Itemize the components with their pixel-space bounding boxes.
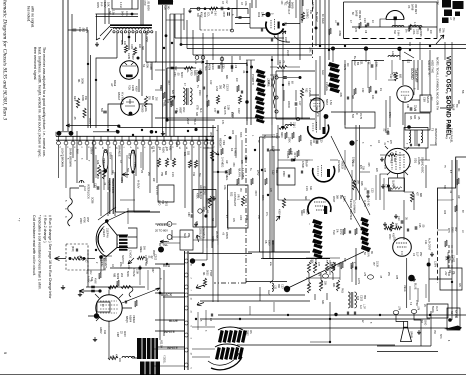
svg-text:CONTRAST: CONTRAST — [233, 192, 237, 207]
junction dot q — [427, 263, 431, 267]
svg-text:47K: 47K — [221, 120, 224, 125]
svg-text:820: 820 — [171, 90, 174, 95]
svg-text:C13: C13 — [363, 18, 366, 23]
svg-text:160: 160 — [138, 44, 141, 49]
svg-text:T3: T3 — [431, 128, 435, 132]
tube V8b horseshoe video amp — [313, 166, 335, 182]
svg-text:470K: 470K — [83, 217, 86, 223]
svg-text:L29N: L29N — [434, 261, 438, 267]
tube V4 inner dashes — [271, 19, 275, 30]
svg-text:ON?: ON? — [86, 217, 89, 223]
svg-text:BLK: BLK — [76, 149, 80, 154]
capacitor C80 — [191, 214, 193, 218]
box interstage T3 — [404, 128, 428, 149]
svg-text:702: 702 — [161, 200, 164, 205]
svg-text:OHM: OHM — [415, 300, 417, 305]
wires dropping from connector — [58, 145, 60, 178]
svg-text:3: 3 — [190, 338, 192, 340]
svg-text:1550: 1550 — [282, 171, 285, 177]
svg-text:DC: DC — [426, 28, 428, 32]
sync top wire with components — [190, 8, 237, 10]
svg-text:33K: 33K — [321, 300, 324, 305]
svg-text:C77: C77 — [213, 108, 216, 113]
svg-text:866: 866 — [164, 171, 167, 176]
svg-text:5: 5 — [64, 200, 67, 202]
tube V2 1B3GT HV rect — [121, 97, 140, 116]
svg-text:.01: .01 — [148, 255, 151, 259]
svg-text:.02 C5: .02 C5 — [293, 152, 296, 160]
transformer T2 audio output vertical — [348, 292, 350, 308]
wire right column verticals — [316, 56, 457, 255]
svg-text:C90: C90 — [289, 122, 291, 127]
resistor bottom audio — [108, 356, 118, 359]
terminal oval L7N c — [393, 311, 399, 315]
svg-text:ANCE: ANCE — [311, 2, 315, 9]
svg-text:B+ HGV: B+ HGV — [315, 12, 319, 22]
svg-text:The receiver was adjusted for: The receiver was adjusted for a good qua… — [42, 47, 46, 158]
svg-text:5: 5 — [59, 147, 61, 149]
dense cluster coil marks x330 — [328, 62, 340, 69]
svg-text:RB: RB — [264, 240, 267, 244]
svg-text:SERVICE: SERVICE — [202, 228, 205, 239]
svg-text:* †: * † — [17, 218, 21, 222]
svg-text:.002: .002 — [82, 27, 86, 33]
svg-text:3: 3 — [108, 147, 110, 149]
resistor strip r1 — [203, 278, 206, 287]
svg-text:680: 680 — [419, 193, 422, 198]
wires left of sync box — [163, 5, 175, 136]
H supply vertical wire — [134, 174, 160, 212]
svg-text:1500: 1500 — [268, 240, 271, 246]
svg-text:ORANGE: ORANGE — [118, 145, 122, 157]
svg-text:500: 500 — [100, 108, 103, 113]
vertical edge connector strip — [184, 251, 186, 370]
svg-text:0.0 NO: 0.0 NO — [367, 199, 369, 206]
svg-text:X1 FL: X1 FL — [152, 146, 155, 153]
svg-text:10: 10 — [461, 230, 463, 233]
svg-text:SALIB: SALIB — [426, 96, 429, 103]
svg-text:SUFFIX "A".: SUFFIX "A". — [427, 60, 431, 77]
ground top right — [430, 252, 434, 256]
vert wires tuner long drops — [101, 170, 115, 216]
svg-text:VR-1: VR-1 — [237, 194, 241, 200]
resistor network r5 — [331, 262, 334, 273]
resistor 3900 in box — [208, 196, 211, 208]
svg-text:100: 100 — [280, 1, 282, 6]
wires sif risers — [333, 50, 366, 112]
svg-text:330K: 330K — [239, 132, 241, 138]
CRT internal hatch arcs — [98, 226, 104, 252]
resistor near HV — [144, 96, 147, 107]
svg-text:RET: RET — [73, 96, 77, 102]
resistor 3.3MEG — [301, 12, 304, 21]
svg-text:C13-3: C13-3 — [226, 84, 229, 91]
svg-text:A4001: A4001 — [199, 192, 202, 200]
tube V4 envelope thick arc — [266, 22, 284, 35]
svg-text:LW: LW — [110, 83, 113, 87]
capacitor C16 bl — [91, 286, 95, 288]
resistor bottom tuner — [137, 256, 145, 259]
svg-text:2: 2 — [190, 278, 192, 280]
svg-text:105: 105 — [290, 151, 293, 156]
resistor contrast — [241, 196, 244, 206]
svg-text:C: C — [89, 280, 92, 282]
svg-text:C51: C51 — [159, 85, 162, 90]
svg-text:922: 922 — [230, 192, 234, 197]
wire pair top x141 — [140, 0, 142, 26]
svg-text:+B: +B — [222, 232, 225, 235]
yoke boxes right — [128, 228, 137, 248]
dense cluster width coil — [256, 69, 266, 75]
capacitor right of box — [239, 17, 242, 18]
svg-text:400V: 400V — [275, 133, 278, 139]
svg-text:4: 4 — [223, 135, 225, 137]
resistor PW2 600 — [388, 154, 397, 157]
arrow to panel corner — [436, 35, 444, 44]
svg-text:YEL: YEL — [163, 243, 169, 247]
capacitor C10 05 — [401, 220, 403, 224]
arrow up mid — [196, 235, 200, 242]
svg-text:L29C: L29C — [309, 47, 312, 53]
resistor mid — [216, 95, 219, 104]
coil L23A wire — [384, 60, 402, 62]
svg-text:7: 7 — [405, 143, 407, 145]
extra junction dots scatter — [163, 47, 165, 49]
svg-text:AUX: AUX — [120, 40, 123, 45]
svg-text:M5: M5 — [409, 116, 412, 120]
arrow 2 — [197, 302, 204, 306]
svg-text:H.V RECT: H.V RECT — [121, 92, 125, 105]
svg-text:300M: 300M — [116, 273, 119, 279]
junction dot left wires — [165, 34, 168, 37]
svg-text:K73UM: K73UM — [132, 268, 135, 276]
svg-text:RG: RG — [336, 284, 339, 288]
svg-text:3352: 3352 — [246, 330, 249, 336]
svg-text:† Run 2 change }: † Run 2 change } — [43, 215, 47, 243]
svg-text:DARK BROWN: DARK BROWN — [69, 148, 73, 167]
svg-text:22000: 22000 — [287, 101, 290, 108]
svg-text:1000: 1000 — [239, 215, 241, 221]
det wire with peaking coils — [352, 26, 437, 28]
svg-text:240: 240 — [167, 6, 169, 11]
svg-text:10 M: 10 M — [339, 229, 342, 234]
diagonal bottom left of H area — [98, 207, 116, 220]
svg-text:C103: C103 — [360, 295, 363, 302]
terminal circle 1 — [78, 256, 82, 260]
svg-text:.0056: .0056 — [338, 30, 341, 37]
tube V10 sound disc — [385, 148, 410, 173]
tube V5 vid det dome — [386, 11, 404, 20]
diagonal wire 2 — [342, 195, 362, 230]
ground under — [366, 194, 370, 198]
junction dot i — [198, 70, 202, 74]
svg-text:L2: L2 — [449, 17, 452, 20]
svg-text:R52: R52 — [305, 88, 308, 93]
junction dot center x230 — [229, 136, 232, 139]
svg-text:2: 2 — [95, 262, 97, 264]
box video detector panel edges — [343, 2, 345, 39]
svg-text:R75: R75 — [447, 228, 450, 233]
junction dot staircase — [180, 43, 183, 46]
svg-text:NOR: NOR — [203, 12, 205, 17]
svg-text:1: 1 — [251, 135, 253, 137]
junction dot above connector a — [117, 125, 120, 128]
svg-text:RD5: RD5 — [128, 85, 131, 90]
svg-text:C32: C32 — [78, 27, 82, 32]
svg-text:VS: VS — [407, 5, 410, 9]
svg-text:2W: 2W — [155, 97, 158, 101]
svg-text:47: 47 — [349, 20, 352, 23]
small box under X1 column — [158, 185, 174, 202]
junction dot left bus — [250, 66, 253, 69]
wire top audio — [110, 267, 160, 269]
svg-text:4: 4 — [447, 340, 449, 342]
svg-text:AGC: AGC — [321, 70, 324, 75]
tube V5 cathode tick — [394, 17, 397, 21]
svg-text:.05: .05 — [73, 116, 77, 120]
capacitor C15 .05 — [415, 226, 417, 230]
svg-text:VERT: VERT — [186, 118, 189, 125]
coil tail curve — [211, 357, 242, 370]
svg-text:SLC: SLC — [204, 66, 207, 71]
svg-text:680K: 680K — [261, 195, 263, 201]
svg-text:LIGHT BROWN: LIGHT BROWN — [61, 148, 65, 167]
svg-text:.0033: .0033 — [222, 11, 224, 17]
box horiz section — [276, 71, 315, 119]
svg-text:330: 330 — [195, 112, 198, 117]
svg-text:300: 300 — [413, 115, 416, 120]
junction dot n — [202, 263, 205, 266]
svg-text:.05: .05 — [417, 116, 420, 120]
svg-text:.01: .01 — [364, 187, 367, 191]
svg-text:1W: 1W — [235, 78, 238, 82]
extra caps scatter — [203, 87, 204, 90]
svg-text:PI?: PI? — [372, 262, 375, 266]
resistor under connector 2 — [102, 168, 105, 179]
svg-text:450V: 450V — [152, 250, 155, 256]
svg-text:OUT: OUT — [435, 306, 438, 312]
wires long bottom-right — [310, 302, 330, 342]
svg-text:3: 3 — [64, 216, 67, 218]
horizontal feeds top of verticals — [260, 137, 281, 150]
svg-text:1S: 1S — [379, 88, 382, 91]
resistor RET 100K 1W — [76, 98, 79, 108]
tube V1 5U4GB rectifier — [120, 61, 138, 79]
wire segments det box to sif — [352, 60, 412, 62]
svg-text:TIF: TIF — [455, 104, 458, 108]
junction dot sif box — [407, 125, 411, 129]
elbows turning right — [260, 252, 331, 259]
svg-text:25V: 25V — [222, 84, 225, 89]
wire horizontals right column — [309, 160, 452, 230]
svg-text:A26: A26 — [96, 160, 99, 165]
svg-text:VERT: VERT — [179, 107, 182, 114]
wire vertical x72 — [71, 14, 73, 131]
svg-text:ISO: ISO — [420, 319, 423, 323]
svg-text:C77: C77 — [383, 165, 385, 170]
dashed volume control column — [449, 245, 452, 268]
junction dot m — [190, 258, 195, 263]
junction dots dashed box — [69, 257, 72, 260]
svg-text:IF: IF — [355, 113, 358, 116]
svg-text:C5M: C5M — [423, 97, 426, 102]
svg-text:5000: 5000 — [206, 270, 209, 276]
svg-text:CLIPS: CLIPS — [363, 200, 365, 207]
svg-text:100-1: 100-1 — [293, 122, 295, 129]
panel border lines bottom middle — [248, 251, 310, 253]
junction dot g — [315, 27, 318, 30]
svg-text:533: 533 — [187, 151, 190, 156]
coil group 2 — [410, 26, 422, 28]
svg-text:05: 05 — [405, 217, 408, 220]
svg-text:4.7K: 4.7K — [325, 258, 327, 263]
junction dot e — [364, 46, 368, 50]
IS box bottom — [97, 302, 110, 312]
svg-text:600V: 600V — [180, 72, 183, 78]
wires top middle risers — [290, 0, 302, 23]
svg-text:SPKR: SPKR — [410, 331, 413, 338]
ground arrow trap — [276, 216, 280, 221]
svg-text:31K: 31K — [309, 186, 312, 191]
svg-text:14: 14 — [185, 147, 187, 150]
junction dot loop left — [104, 169, 107, 172]
svg-text:WOF: WOF — [388, 234, 391, 240]
svg-text:500: 500 — [144, 262, 146, 267]
resistor AL 4700 — [184, 67, 193, 70]
cable loop oval left — [103, 151, 108, 171]
wire bus under det box — [316, 45, 466, 49]
svg-text:VR3: VR3 — [222, 140, 226, 146]
svg-text:Coil resistance read with coil: Coil resistance read with coil in circui… — [32, 215, 36, 276]
svg-text:8: 8 — [87, 147, 89, 149]
svg-text:410: 410 — [103, 330, 106, 335]
terminal oval L7N d — [411, 310, 417, 314]
svg-text:SD1: SD1 — [414, 158, 418, 164]
svg-text:VIDEO: VIDEO — [132, 315, 136, 323]
svg-text:TIF: TIF — [430, 97, 433, 101]
svg-text:6BG6: 6BG6 — [113, 80, 116, 87]
svg-text:M1: M1 — [202, 272, 205, 276]
svg-text:35V: 35V — [454, 227, 457, 232]
svg-text:C51: C51 — [173, 72, 176, 77]
arrow left yel — [160, 240, 167, 243]
long diagonal wire to upper right — [287, 252, 364, 289]
svg-text:68: 68 — [461, 210, 463, 213]
svg-text:400V: 400V — [96, 2, 100, 8]
svg-text:SNO: SNO — [424, 320, 427, 325]
svg-text:TAL: TAL — [198, 173, 201, 178]
coil L31 loops — [272, 283, 273, 291]
ground mid2 — [194, 222, 198, 226]
svg-text:3.4 MEG: 3.4 MEG — [221, 157, 225, 167]
ground center — [161, 131, 165, 136]
svg-text:3.2: 3.2 — [409, 302, 411, 306]
box 1550 trap — [277, 168, 295, 185]
tube V10 pin stubs — [385, 146, 409, 178]
svg-text:5BN7: 5BN7 — [325, 99, 328, 106]
resistor network bottom right r1 — [307, 262, 310, 273]
T2 caps — [347, 312, 348, 315]
svg-text:then removed signal.: then removed signal. — [33, 47, 37, 80]
svg-text:270: 270 — [389, 140, 391, 145]
svg-text:31 3K: 31 3K — [376, 261, 379, 268]
junction dot r — [448, 318, 452, 322]
junction dot second arrow — [98, 289, 101, 292]
svg-text:J2: J2 — [361, 320, 363, 323]
svg-text:24: 24 — [190, 311, 192, 314]
svg-text:5AN8: 5AN8 — [355, 10, 358, 17]
svg-text:PIF: PIF — [452, 17, 455, 21]
junction dot b — [137, 57, 140, 60]
svg-text:1MEG: 1MEG — [351, 160, 353, 167]
resistor network r2 — [313, 262, 316, 273]
svg-text:1 FU: 1 FU — [119, 2, 123, 8]
svg-text:30%: 30% — [442, 28, 444, 33]
svg-text:1.1 2MB4: 1.1 2MB4 — [241, 168, 244, 179]
resistors audio row — [384, 226, 392, 229]
CRT 21EP4 funnel outline — [96, 222, 128, 257]
coil L30A bumps group 1 — [392, 26, 404, 28]
svg-text:C47: C47 — [298, 101, 301, 106]
svg-text:L23A: L23A — [391, 51, 395, 57]
svg-text:3900: 3900 — [206, 198, 209, 204]
wire pair top left power — [96, 14, 139, 17]
wires upper-left of connector — [56, 132, 118, 137]
wires resistor cluster — [306, 258, 340, 300]
svg-text:C81: C81 — [406, 104, 409, 109]
junction dot o — [284, 286, 290, 292]
coils in interstage box — [409, 130, 411, 143]
svg-text:150: 150 — [257, 215, 259, 220]
svg-text:600: 600 — [393, 158, 396, 163]
coil L23A — [388, 56, 400, 58]
svg-text:C77: C77 — [317, 262, 319, 267]
svg-text:250: 250 — [147, 172, 149, 177]
tube V13 audio circle — [393, 238, 412, 257]
svg-text:270K: 270K — [388, 112, 391, 118]
svg-text:SYNC OUT: SYNC OUT — [287, 2, 290, 15]
svg-text:600V: 600V — [272, 146, 275, 152]
big arrow down-left — [128, 258, 134, 264]
CRT anode diagonal wire — [107, 211, 150, 221]
cap on box wire — [283, 77, 287, 79]
diagonal wire tube to right — [122, 288, 160, 303]
wires audio bottom — [88, 250, 137, 358]
svg-text:4.7K: 4.7K — [413, 22, 416, 27]
svg-text:C17: C17 — [385, 184, 388, 189]
junction dot p — [94, 313, 99, 318]
svg-text:HOLD: HOLD — [193, 118, 196, 125]
small box mid — [193, 190, 216, 228]
svg-text:10: 10 — [190, 264, 192, 267]
svg-text:L27N: L27N — [357, 278, 360, 284]
svg-text:C60: C60 — [231, 130, 233, 135]
junction dot violet — [158, 247, 164, 253]
tube arc reverter (horseshoe) — [308, 198, 331, 214]
svg-text:.005: .005 — [339, 92, 342, 97]
capacitor in dashed box — [76, 249, 77, 252]
svg-text:350: 350 — [363, 295, 366, 300]
resistor under connector 1 — [97, 165, 100, 176]
svg-text:X7B: X7B — [196, 105, 199, 110]
svg-text:SO: SO — [242, 331, 245, 335]
svg-text:TAKEOFF: TAKEOFF — [414, 68, 418, 83]
capacitor .003 400V — [316, 140, 318, 144]
svg-text:1W: 1W — [118, 358, 121, 362]
svg-text:6: 6 — [66, 147, 68, 149]
svg-text:L7N: L7N — [417, 306, 419, 311]
ground right of reverter — [383, 222, 387, 226]
